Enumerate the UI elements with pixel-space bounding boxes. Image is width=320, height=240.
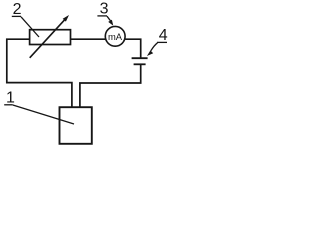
- svg-text:mA: mA: [108, 31, 123, 42]
- svg-text:4: 4: [159, 27, 168, 44]
- svg-text:3: 3: [100, 0, 109, 17]
- svg-text:1: 1: [6, 90, 15, 107]
- svg-text:2: 2: [13, 1, 22, 18]
